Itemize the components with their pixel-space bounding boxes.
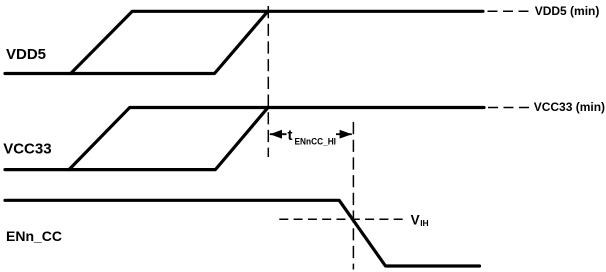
svg-text:VDD5: VDD5: [6, 46, 46, 63]
svg-text:ENnCC_HI: ENnCC_HI: [295, 136, 337, 146]
svg-text:VDD5 (min): VDD5 (min): [535, 4, 600, 18]
svg-text:ENn_CC: ENn_CC: [6, 228, 62, 244]
svg-text:V: V: [411, 212, 420, 227]
svg-text:IH: IH: [420, 218, 429, 228]
svg-text:VCC33 (min): VCC33 (min): [534, 100, 605, 114]
svg-text:t: t: [288, 127, 293, 144]
svg-text:VCC33: VCC33: [3, 140, 51, 157]
